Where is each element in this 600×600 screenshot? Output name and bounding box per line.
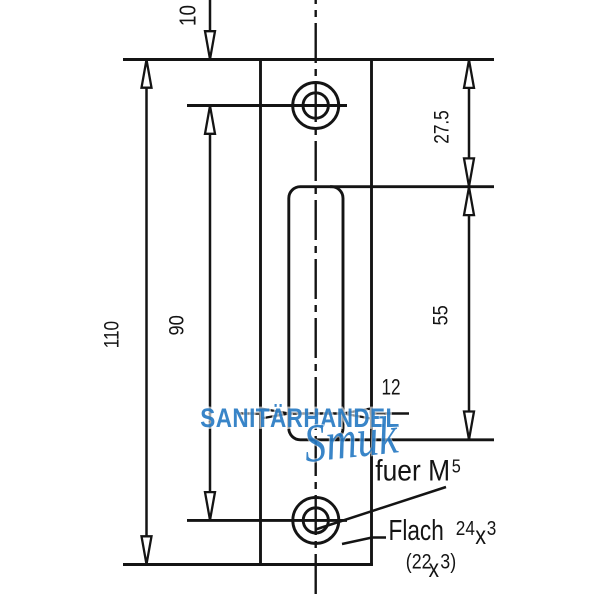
arrow 90 top (points up) [205, 106, 215, 134]
top hole outer circle [293, 83, 339, 129]
svg-text:3: 3 [487, 517, 497, 540]
dim line 110 [145, 61, 148, 564]
svg-text:24: 24 [456, 517, 475, 540]
plate bottom edge (with left extension) [123, 563, 373, 566]
bottom hole inner circle [303, 508, 328, 533]
bottom hole outer circle [293, 497, 339, 543]
svg-text:27.5: 27.5 [430, 110, 454, 143]
svg-text:90: 90 [165, 315, 189, 335]
svg-text:10: 10 [175, 5, 202, 26]
svg-text:Flach: Flach [389, 513, 444, 546]
slot top extension line [330, 185, 494, 188]
arrow 55 top (points up) [464, 187, 474, 215]
dim line 10 (upper segment) [209, 0, 212, 59]
dim line 27.5 [468, 60, 471, 186]
svg-text:x: x [429, 554, 440, 582]
slot bottom extension line [330, 438, 494, 441]
leader line fuer M5 [316, 487, 447, 530]
arrow 110 bottom (points down) [142, 536, 152, 564]
svg-text:3): 3) [440, 550, 456, 574]
plate top edge (with extension lines) [123, 58, 494, 61]
svg-text:(22: (22 [406, 550, 432, 574]
vertical dash-dot center line [315, 0, 317, 600]
leader line Flach [342, 538, 386, 545]
svg-text:Smuk: Smuk [301, 404, 402, 474]
arrow 12 right (points left) [343, 409, 371, 419]
plate left edge [259, 58, 262, 566]
arrow 110 top (points up) [142, 60, 152, 88]
plate right edge [370, 58, 373, 566]
svg-text:5: 5 [452, 455, 461, 476]
bottom hole horizontal centerline [187, 519, 347, 522]
slot (rounded rectangle cutout) [289, 187, 343, 440]
svg-text:55: 55 [429, 305, 453, 325]
svg-text:x: x [475, 521, 486, 550]
svg-text:12: 12 [381, 375, 400, 400]
arrow 27.5 bottom (points down) [464, 158, 474, 186]
dim line 90 [209, 106, 212, 520]
top hole inner circle [303, 93, 328, 118]
arrow 27.5 top (points up) [464, 60, 474, 88]
arrow 12 left (points right) [261, 409, 289, 419]
dim line 12 [240, 412, 410, 415]
svg-text:110: 110 [100, 321, 124, 349]
top hole horizontal centerline [187, 104, 347, 107]
dim line 55 [468, 187, 471, 439]
arrow 10 (points down at plate top) [205, 31, 215, 59]
arrow 55 bottom (points down) [464, 412, 474, 440]
arrow 90 bottom (points down) [205, 492, 215, 520]
